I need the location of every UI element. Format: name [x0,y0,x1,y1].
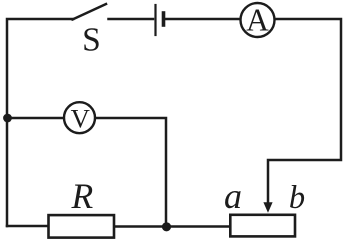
svg-text:S: S [82,21,101,58]
svg-text:b: b [289,180,305,216]
svg-text:a: a [224,176,242,216]
svg-text:V: V [71,104,90,134]
svg-text:A: A [246,3,269,38]
svg-text:R: R [71,176,94,216]
